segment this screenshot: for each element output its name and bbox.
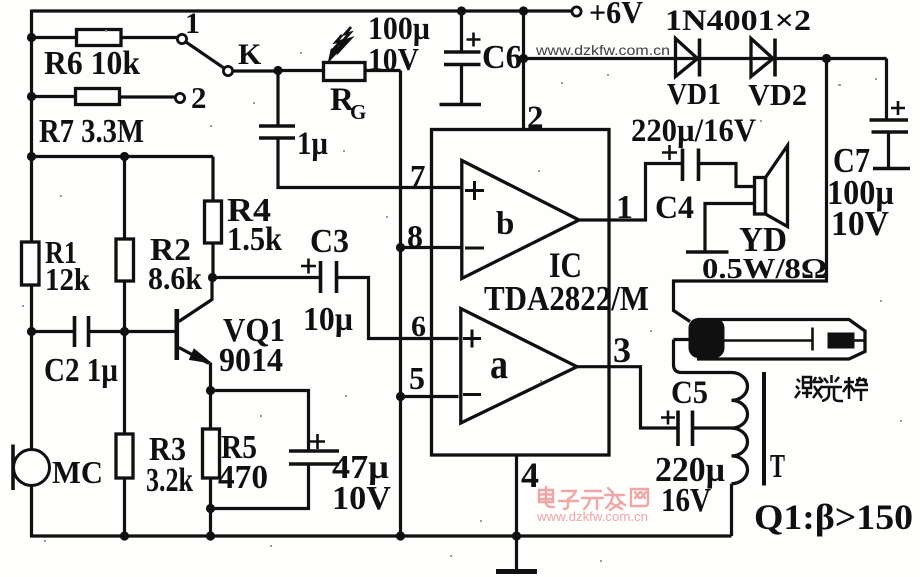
wire speaker to ground <box>705 204 755 252</box>
svg-text:4: 4 <box>521 455 539 495</box>
node R3 ground <box>120 531 129 540</box>
svg-text:C5: C5 <box>671 375 708 411</box>
node left rail y156 <box>27 152 36 161</box>
diode VD1 <box>676 39 698 77</box>
svg-text:10V: 10V <box>332 480 391 517</box>
wire left rail upper <box>30 36 33 242</box>
node emitter <box>206 386 215 395</box>
wire R7 branch <box>32 95 76 98</box>
wire RG to long vertical <box>365 69 401 72</box>
wire diode rail <box>524 57 887 60</box>
svg-text:6: 6 <box>411 310 426 343</box>
switch K pivot <box>223 66 232 75</box>
wire winding bottom to ground <box>730 484 733 536</box>
svg-text:470: 470 <box>218 459 268 496</box>
resistor R2 <box>116 239 134 281</box>
svg-text:5: 5 <box>409 360 425 396</box>
ground speaker <box>686 250 729 254</box>
node top rail C6 <box>457 6 466 15</box>
node pin4 ground <box>512 531 521 540</box>
diode VD2 <box>751 39 773 77</box>
svg-text:1: 1 <box>616 189 633 226</box>
node top rail pin2 <box>519 6 528 15</box>
wire bias row y156 <box>32 155 214 158</box>
wire R2 column <box>123 157 126 240</box>
wire emitter to 47u <box>211 391 309 451</box>
node pin8 <box>396 243 405 252</box>
svg-text:www.dzkfw.com.cn: www.dzkfw.com.cn <box>536 509 648 524</box>
wire C4 to speaker <box>699 164 755 187</box>
microphone MC <box>14 450 50 486</box>
svg-text:1: 1 <box>185 7 200 40</box>
capacitor C2 <box>75 316 89 347</box>
capacitor C6 <box>460 11 463 52</box>
laser pointer body <box>697 320 865 360</box>
svg-text:7: 7 <box>410 158 426 193</box>
svg-text:3: 3 <box>613 330 631 370</box>
transformer core <box>762 372 766 486</box>
terminal +6V <box>572 7 581 16</box>
wire pin8 <box>401 246 462 249</box>
wire R5 top/bottom <box>209 391 212 537</box>
svg-text:9014: 9014 <box>219 342 283 379</box>
svg-text:www.dzkfw.com.cn: www.dzkfw.com.cn <box>535 43 670 58</box>
capacitor 1u <box>259 126 295 138</box>
wire K to node <box>233 69 280 72</box>
capacitor C5 <box>678 411 693 447</box>
svg-text:1.5k: 1.5k <box>227 221 282 258</box>
svg-text:12k: 12k <box>45 261 90 297</box>
svg-text:C2 1µ: C2 1µ <box>44 352 118 389</box>
wire C3 to pin6 <box>337 278 459 339</box>
light arrows onto RG <box>330 27 351 59</box>
laser battery <box>828 333 855 349</box>
node diode output <box>822 54 831 63</box>
wire laser lower terminal <box>674 340 732 373</box>
capacitor 47u <box>289 451 339 464</box>
svg-text:VD1: VD1 <box>667 76 721 111</box>
svg-text:8.6k: 8.6k <box>148 260 202 296</box>
wire 1u to pin7 <box>278 138 462 188</box>
wire long vertical to ground <box>399 71 402 537</box>
wire left rail mid <box>30 285 33 450</box>
svg-text:K: K <box>238 38 262 71</box>
resistor R6 <box>77 30 122 46</box>
resistor R7 <box>76 89 120 105</box>
svg-text:10V: 10V <box>368 41 419 77</box>
node R2 top <box>120 152 129 161</box>
wire R3 column <box>123 332 126 435</box>
pin 4 wire <box>515 455 518 570</box>
svg-text:R7 3.3M: R7 3.3M <box>39 113 144 150</box>
wire 47u bottom <box>211 464 309 509</box>
svg-text:a: a <box>490 342 508 388</box>
ground pin4 <box>496 569 537 574</box>
photoresistor RG <box>324 63 366 81</box>
transistor VQ1 <box>175 309 180 360</box>
capacitor 1u drop wire <box>276 71 279 126</box>
wire C5 to winding tap <box>693 426 732 429</box>
watermark pink site name (CJK strokes) <box>539 487 648 510</box>
node diode rail start <box>519 54 528 63</box>
wire R6 branch <box>32 36 77 39</box>
svg-text:R6 10k: R6 10k <box>44 45 140 82</box>
svg-text:3.2k: 3.2k <box>146 462 193 499</box>
svg-text:Q1:β>150: Q1:β>150 <box>754 497 913 537</box>
resistor R1 <box>22 242 40 285</box>
laser head blob <box>689 318 725 358</box>
IC box U1 <box>432 130 610 456</box>
switch K blade <box>186 42 225 68</box>
speaker YD <box>755 178 766 215</box>
svg-text:2: 2 <box>527 100 544 136</box>
svg-text:VD2: VD2 <box>748 77 807 112</box>
svg-text:10V: 10V <box>831 204 889 243</box>
capacitor C4 <box>683 149 699 182</box>
svg-text:+6V: +6V <box>589 0 643 30</box>
svg-text:G: G <box>350 100 366 124</box>
capacitor C3 <box>321 261 337 293</box>
svg-text:8: 8 <box>407 218 423 254</box>
resistor R4 <box>205 201 222 243</box>
svg-text:10µ: 10µ <box>303 301 353 338</box>
wire bottom ground rail <box>30 534 732 537</box>
wire node to C3 <box>213 276 321 279</box>
node R5 ground <box>206 531 215 540</box>
wire output a pin3 to C5 <box>577 367 678 428</box>
svg-text:220µ/16V: 220µ/16V <box>631 113 756 149</box>
wire R4 column <box>211 157 214 202</box>
node left rail at R6 <box>27 33 36 42</box>
svg-text:1N4001×2: 1N4001×2 <box>665 4 811 37</box>
wire base row y331 with C2 <box>32 330 75 333</box>
svg-text:T: T <box>770 448 785 485</box>
svg-text:C3: C3 <box>310 223 349 260</box>
svg-text:1µ: 1µ <box>297 126 328 162</box>
capacitor C7 <box>885 59 888 120</box>
svg-text:TDA2822/M: TDA2822/M <box>484 279 649 318</box>
op-amp a <box>461 309 577 424</box>
op-amp b <box>462 161 579 279</box>
laser inner line <box>724 328 813 351</box>
wire left rail lower <box>30 486 33 538</box>
node pin5 <box>396 392 405 401</box>
svg-text:C6: C6 <box>482 39 522 76</box>
node left rail at C2 <box>27 327 36 336</box>
wire output b pin1 to C4 <box>579 164 683 221</box>
node left rail at R7 <box>27 92 36 101</box>
switch K terminal 1 <box>177 34 186 43</box>
switch K terminal 2 <box>175 93 184 102</box>
node R5 bottom joint <box>206 504 215 513</box>
svg-text:16V: 16V <box>661 482 711 519</box>
wire node to RG <box>278 69 324 72</box>
node base junction <box>120 327 129 336</box>
svg-text:MC: MC <box>52 454 103 490</box>
svg-text:b: b <box>496 206 514 242</box>
wire pin5 <box>401 395 459 398</box>
svg-text:2: 2 <box>191 80 207 115</box>
label laser rod (CJK strokes) <box>795 375 868 401</box>
node collector / C3 <box>208 273 217 282</box>
svg-text:C4: C4 <box>655 190 694 226</box>
pin 2 wire <box>522 11 525 130</box>
resistor R3 <box>116 434 133 478</box>
transformer T winding <box>732 373 748 484</box>
wire top +6V rail <box>32 9 572 12</box>
node switch output <box>273 66 282 75</box>
node top-left corner <box>30 10 33 39</box>
resistor R5 <box>203 429 220 478</box>
wire right column to laser <box>674 59 827 322</box>
node vertical ground <box>396 531 405 540</box>
